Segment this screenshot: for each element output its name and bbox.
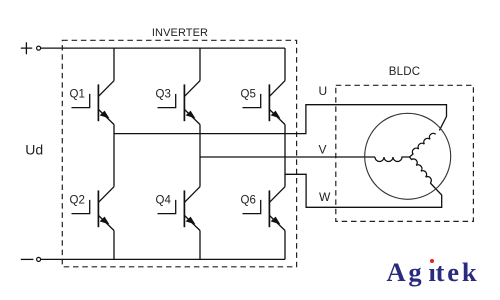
wire: - bus bottom rail: [41, 258, 285, 260]
svg-text:Ud: Ud: [25, 141, 43, 157]
wire: leg B upper segment (rail to Q3 collector): [199, 48, 201, 81]
Agitek logo red i-dot: [430, 259, 434, 263]
wire: leg B mid segment (Q3 emitter to Q4 collector, phase tap): [199, 125, 201, 187]
transistor Q3: [156, 81, 201, 125]
wire: leg A mid segment (Q1 emitter to Q2 collector, phase tap): [113, 125, 115, 187]
svg-text:Q3: Q3: [156, 89, 171, 101]
wire: leg A upper segment (rail to Q1 collector): [113, 48, 115, 81]
transistor Q2: [70, 187, 115, 231]
wire: leg C upper segment (rail to Q5 collector): [284, 48, 286, 81]
wire: phase U from leg A tap to motor: [114, 105, 447, 134]
transistor Q4: [156, 187, 201, 231]
wire: leg A lower segment (Q2 emitter to - rail): [113, 231, 115, 260]
BLDC enclosure box: [336, 85, 474, 221]
svg-text:Q4: Q4: [156, 195, 172, 207]
svg-text:V: V: [319, 142, 327, 156]
svg-text:Q2: Q2: [70, 195, 85, 207]
svg-text:BLDC: BLDC: [389, 66, 420, 78]
wire: phase W from leg C tap to motor: [285, 174, 442, 207]
transistor Q6: [241, 187, 286, 231]
- terminal (minus sign and open circle): [21, 257, 41, 261]
motor winding V (left coil): [375, 157, 410, 162]
+ terminal (plus sign and open circle): [21, 42, 41, 54]
wire: + bus top rail: [41, 47, 285, 49]
inverter enclosure box: [62, 40, 296, 266]
wire: leg C lower segment (Q6 emitter to - rail): [284, 231, 286, 260]
svg-text:Q6: Q6: [241, 195, 256, 207]
transistor Q1: [70, 81, 115, 125]
BLDC motor stator circle: [365, 113, 451, 199]
motor winding U (upper-right coil): [410, 133, 436, 157]
svg-text:Q1: Q1: [70, 89, 85, 101]
svg-text:Q5: Q5: [241, 89, 256, 101]
wire: phase V from leg B tap to motor: [200, 156, 375, 158]
svg-text:INVERTER: INVERTER: [152, 27, 208, 39]
wire: leg C mid segment (Q5 emitter to Q6 collector, phase tap): [284, 125, 286, 187]
wire: leg B lower segment (Q4 emitter to - rail): [199, 231, 201, 260]
transistor Q5: [241, 81, 286, 125]
motor winding W (lower-right coil): [410, 157, 432, 183]
svg-text:W: W: [319, 190, 331, 204]
svg-text:U: U: [319, 84, 328, 98]
Agitek logo: [387, 259, 480, 286]
